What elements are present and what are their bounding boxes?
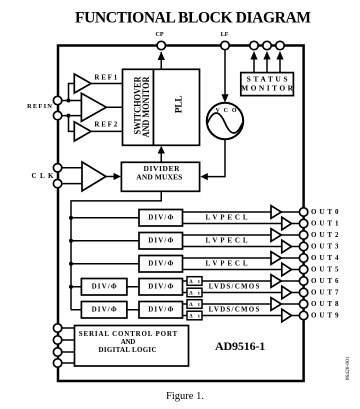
delay block OUT8: [187, 300, 202, 309]
pin serial3: [53, 348, 61, 356]
buffer OUT3: [292, 246, 300, 248]
divider DIV/phase group1: [139, 210, 183, 227]
wire group3 OUT4: [183, 257, 272, 259]
pin CP: [157, 41, 165, 49]
wire serial pin1: [58, 327, 75, 329]
divider DIV/phase group3: [139, 256, 183, 273]
svg-text:DIV/Φ: DIV/Φ: [148, 306, 173, 314]
wire group2 OUT3: [183, 246, 282, 248]
divider DIV/phase group4 first: [81, 279, 127, 296]
node bus junction group2: [69, 239, 73, 243]
pin serial4: [53, 359, 61, 367]
pin LF: [221, 41, 229, 49]
svg-text:AND MUXES: AND MUXES: [136, 173, 182, 182]
pin serial1: [53, 324, 61, 332]
divider DIV/phase group5 second: [139, 302, 183, 319]
svg-text:DIV/Φ: DIV/Φ: [148, 283, 173, 291]
wire status output 1 with up arrow: [253, 59, 255, 73]
wire VCO output to divider with left arrow: [207, 139, 225, 176]
svg-text:DIGITAL LOGIC: DIGITAL LOGIC: [99, 346, 157, 354]
buffer OUT2: [281, 234, 299, 236]
wire status output 2 with up arrow: [266, 59, 268, 73]
wire CLK pin1 to CLK buffer: [58, 167, 82, 169]
wire delay to OUT6 buffer: [202, 280, 271, 282]
node junction dot REFIN1: [67, 99, 71, 103]
pin OUT8: [299, 300, 307, 308]
svg-text:PLL: PLL: [174, 95, 184, 113]
wire delay to OUT7 buffer: [202, 292, 282, 294]
divider DIV/phase group2: [139, 233, 183, 250]
svg-text:DIV/Φ: DIV/Φ: [92, 306, 117, 314]
pin status2: [263, 41, 271, 49]
wire bus to DIV group2: [71, 240, 139, 242]
svg-text:DIV/Φ: DIV/Φ: [92, 283, 117, 291]
wire group4 to delay OUT6: [183, 280, 188, 282]
wire REFIN pin2 to REFIN buffer: [58, 115, 81, 117]
svg-text:Figure 1.: Figure 1.: [166, 391, 204, 402]
svg-text:AND: AND: [121, 338, 136, 346]
delay block OUT7: [187, 288, 202, 297]
pin OUT7: [299, 288, 307, 296]
svg-text:AD9516-1: AD9516-1: [215, 339, 265, 353]
buffer OUT9: [292, 315, 300, 317]
svg-text:DIV/Φ: DIV/Φ: [148, 260, 173, 268]
block DIVIDER AND MUXES: [121, 162, 199, 191]
node bus junction group3: [69, 262, 73, 266]
pin serial2: [53, 336, 61, 344]
wire CLK pin2 to CLK buffer: [58, 183, 82, 185]
block SWITCHOVER AND MONITOR: [123, 69, 154, 145]
svg-text:06420-001: 06420-001: [345, 356, 351, 380]
buffer OUT1: [292, 223, 300, 225]
wire junction to REF1 input: [69, 84, 75, 101]
wire group1 OUT0: [183, 211, 272, 213]
svg-text:DIV/Φ: DIV/Φ: [148, 237, 173, 245]
wire REFIN pin1 to REFIN buffer: [58, 100, 81, 102]
svg-text:CLK: CLK: [32, 172, 55, 180]
wire group5 to delay OUT8: [183, 303, 188, 305]
buffer OUT6: [281, 280, 299, 282]
pin OUT9: [299, 311, 307, 319]
buffer CLK: [82, 162, 106, 191]
buffer OUT4: [281, 257, 299, 259]
chip boundary box: [58, 46, 304, 382]
node junction dot REFIN2: [67, 114, 71, 118]
wire group5 to delay OUT9: [183, 315, 188, 317]
pin status3: [276, 41, 284, 49]
pin OUT3: [299, 242, 307, 250]
buffer OUT8: [281, 303, 299, 305]
buffer OUT0: [281, 211, 299, 213]
pin CLK1: [53, 164, 61, 172]
delay block OUT9: [187, 311, 202, 320]
block STATUS MONITOR: [241, 73, 294, 96]
svg-text:LVDS/CMOS: LVDS/CMOS: [209, 305, 260, 313]
svg-text:LF: LF: [221, 32, 229, 38]
wire divider bottom to distribution bus: [71, 191, 161, 309]
wire bus to DIV group1: [71, 217, 139, 219]
block PLL: [154, 69, 200, 145]
buffer REF1: [74, 74, 91, 93]
buffer OUT5: [292, 269, 300, 271]
wire group1 OUT1: [183, 223, 282, 225]
wire LF pin to VCO with down arrow: [224, 50, 226, 100]
pin OUT2: [299, 231, 307, 239]
pin status1: [250, 41, 258, 49]
wire PLL to CP pin with up arrow: [160, 52, 162, 69]
block SERIAL CONTROL PORT: [75, 326, 189, 367]
wire group4 cascade: [127, 286, 139, 288]
pin OUT0: [299, 208, 307, 216]
wire junction to REF2 input: [69, 116, 75, 132]
wire group4 to delay OUT7: [183, 292, 188, 294]
wire REF2 output: [91, 130, 123, 132]
pin OUT1: [299, 219, 307, 227]
wire bus end to DIV group5 first: [71, 309, 81, 311]
svg-text:SERIAL CONTROL PORT: SERIAL CONTROL PORT: [79, 330, 178, 338]
buffer REF2: [74, 122, 91, 141]
wire REF1 output: [91, 83, 123, 85]
pin OUT4: [299, 254, 307, 262]
wire group3 OUT5: [183, 269, 282, 271]
pin CLK2: [53, 179, 61, 187]
wire group5 cascade: [127, 309, 139, 311]
svg-text:REFIN: REFIN: [27, 103, 52, 110]
divider DIV/phase group5 first: [81, 302, 127, 319]
wire serial pin2: [58, 339, 75, 341]
wire delay to OUT8 buffer: [202, 303, 271, 305]
svg-text:LVDS/CMOS: LVDS/CMOS: [209, 282, 260, 290]
svg-text:FUNCTIONAL BLOCK DIAGRAM: FUNCTIONAL BLOCK DIAGRAM: [75, 10, 311, 27]
delay block OUT6: [187, 277, 202, 286]
node bus junction group4: [69, 285, 73, 289]
wire CLK buffer to divider with right arrow: [106, 176, 115, 178]
svg-text:AND MONITOR: AND MONITOR: [142, 76, 152, 137]
pin OUT6: [299, 277, 307, 285]
pin OUT5: [299, 265, 307, 273]
svg-text:DIVIDER: DIVIDER: [144, 164, 181, 173]
wire group2 OUT2: [183, 234, 272, 236]
pin REFIN1: [53, 96, 61, 104]
wire status output 3 with up arrow: [279, 59, 281, 73]
buffer REFIN: [81, 93, 106, 121]
wire serial pin4: [58, 362, 75, 364]
wire REFIN buffer output: [106, 106, 122, 108]
svg-text:DIV/Φ: DIV/Φ: [148, 214, 173, 222]
node bus junction group1: [69, 216, 73, 220]
wire bus to DIV group3: [71, 263, 139, 265]
svg-text:CP: CP: [156, 32, 164, 38]
divider DIV/phase group4 second: [139, 279, 183, 296]
buffer OUT7: [292, 292, 300, 294]
wire bus to DIV group4 first: [71, 286, 81, 288]
oscillator VCO: [207, 103, 243, 139]
wire serial pin3: [58, 351, 75, 353]
wire divider feedback to PLL with up arrow: [160, 153, 162, 162]
wire delay to OUT9 buffer: [202, 315, 282, 317]
pin REFIN2: [53, 111, 61, 119]
